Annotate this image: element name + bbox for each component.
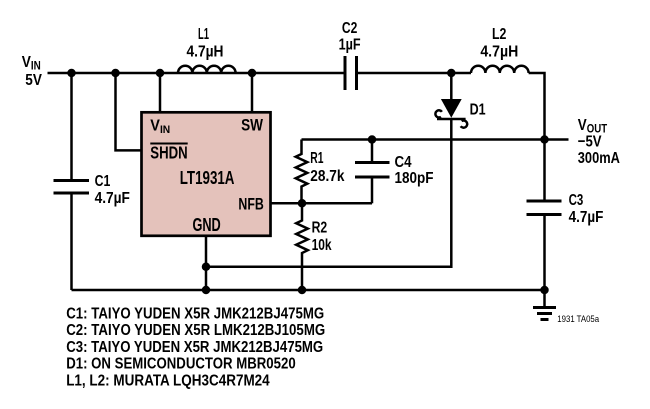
svg-text:R2: R2	[312, 220, 328, 237]
wire VOUT rail	[302, 138, 569, 141]
label C3 value	[569, 192, 604, 226]
svg-text:28.7k: 28.7k	[310, 168, 344, 185]
diode D1 schottky right curl	[461, 120, 468, 127]
capacitor C1 lower wire to ground rail	[70, 195, 73, 291]
svg-text:C4: C4	[395, 154, 412, 171]
svg-text:4.7µH: 4.7µH	[480, 43, 518, 60]
wire D1 cathode down crossing VOUT rail to feedback return	[206, 119, 451, 267]
diode D1 triangle	[441, 99, 462, 118]
svg-text:300mA: 300mA	[578, 150, 620, 167]
pin SHDN overline	[150, 143, 187, 145]
junction dot SHDN branch	[111, 69, 120, 78]
svg-text:L1, L2: MURATA LQH3C4R7M24: L1, L2: MURATA LQH3C4R7M24	[66, 372, 270, 389]
resistor R2	[296, 203, 308, 290]
label L2 value	[480, 26, 518, 60]
svg-text:C2: C2	[342, 20, 357, 37]
svg-text:L1: L1	[198, 26, 209, 43]
svg-text:NFB: NFB	[238, 195, 263, 214]
svg-text:C1: TAIYO YUDEN X5R JMK212BJ47: C1: TAIYO YUDEN X5R JMK212BJ475MG	[66, 306, 324, 323]
label C2 value	[339, 20, 361, 54]
wire SW pin	[251, 73, 254, 112]
node VIN input label	[22, 54, 42, 89]
svg-text:D1: D1	[470, 102, 486, 119]
ground symbol	[533, 290, 556, 320]
junction dot ground rail right end	[540, 286, 549, 295]
wire VIN pin	[159, 73, 162, 112]
svg-text:SW: SW	[241, 116, 264, 135]
label L1 value	[187, 26, 224, 60]
junction dot VIN pin	[156, 69, 165, 78]
label C1 value	[95, 173, 130, 207]
svg-text:4.7µF: 4.7µF	[95, 190, 130, 207]
junction dot C4 top	[368, 135, 377, 144]
svg-text:L2: L2	[492, 26, 506, 43]
junction dot R2 bottom	[298, 286, 307, 295]
capacitor C4 plates	[355, 163, 390, 178]
wire top rail from C2 right plate to L2	[358, 72, 471, 75]
node VOUT output label	[578, 117, 620, 167]
label R2 value	[312, 220, 332, 254]
capacitor C1 plates	[54, 181, 90, 194]
junction dot SW pin	[248, 69, 257, 78]
junction dot C1 top	[67, 69, 76, 78]
label parts list	[66, 306, 325, 390]
wire L2 right end down to VOUT rail	[529, 73, 545, 200]
inductor L2	[471, 66, 529, 73]
svg-text:D1: ON SEMICONDUCTOR MBR0520: D1: ON SEMICONDUCTOR MBR0520	[66, 356, 296, 373]
wire GND pin down to ground rail	[205, 236, 208, 290]
label R1 value	[310, 150, 344, 185]
capacitor C1 branch wire upper	[70, 73, 73, 179]
wire ground rail	[72, 289, 545, 292]
capacitor C3 plates	[527, 201, 562, 215]
svg-text:R1: R1	[310, 150, 323, 167]
wire top rail from VIN to C2 left plate	[48, 72, 344, 75]
resistor R1	[296, 140, 308, 204]
junction dot NFB node	[298, 199, 307, 208]
svg-text:LT1931A: LT1931A	[180, 167, 235, 188]
capacitor C4 upper wire	[371, 140, 374, 162]
capacitor C2 plates	[345, 56, 357, 90]
svg-text:C1: C1	[95, 173, 111, 190]
svg-text:10k: 10k	[312, 237, 332, 254]
junction dot C2-L2-D1 node	[447, 69, 456, 78]
inductor L1	[178, 66, 236, 73]
capacitor C4 lower wire to NFB line	[371, 179, 374, 204]
diode D1 schottky left curl	[435, 110, 442, 117]
svg-text:5V: 5V	[25, 72, 42, 89]
junction dot VOUT node	[540, 135, 549, 144]
svg-text:4.7µF: 4.7µF	[569, 209, 604, 226]
label C4 value	[395, 154, 434, 187]
svg-text:C3: C3	[569, 192, 584, 209]
junction dot GND rail at GND pin	[202, 286, 211, 295]
IC U1 LT1931A body	[142, 112, 271, 236]
capacitor C3 lower wire	[543, 216, 546, 290]
svg-text:4.7µH: 4.7µH	[187, 43, 224, 60]
svg-text:C3: TAIYO YUDEN X5R JMK212BJ47: C3: TAIYO YUDEN X5R JMK212BJ475MG	[66, 339, 323, 356]
svg-text:GND: GND	[192, 215, 220, 235]
wire NFB line from IC to C4 bottom	[271, 202, 373, 205]
junction dot GND feedback return	[202, 262, 211, 271]
diode D1 schottky cathode bar	[437, 118, 466, 121]
svg-text:SHDN: SHDN	[150, 142, 187, 162]
svg-text:C2: TAIYO YUDEN X5R LMK212BJ10: C2: TAIYO YUDEN X5R LMK212BJ105MG	[66, 322, 325, 339]
wire SHDN branch	[116, 73, 142, 150]
svg-text:−5V: −5V	[578, 134, 602, 151]
svg-text:1µF: 1µF	[339, 37, 361, 54]
svg-text:1931 TA05a: 1931 TA05a	[557, 314, 599, 325]
svg-text:180pF: 180pF	[395, 170, 434, 187]
wire D1 anode from top node	[450, 73, 453, 99]
